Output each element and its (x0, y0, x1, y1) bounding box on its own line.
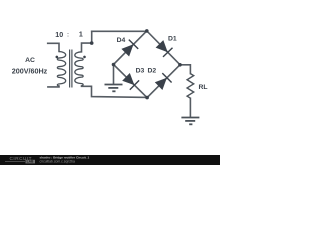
wire secondary-top to top node (92, 30, 147, 32)
wire primary bottom stub (48, 85, 59, 88)
diode D2 (bottom node to right node) (155, 78, 167, 90)
wire secondary bottom route (82, 86, 148, 97)
svg-text:RL: RL (198, 84, 207, 91)
resistor RL zigzag (187, 74, 194, 99)
wire diamond edge top-right (147, 31, 180, 65)
transformer T1 primary coil (57, 52, 65, 87)
node: right junction (178, 63, 182, 67)
node: top junction (145, 29, 149, 33)
svg-text:circuitlab.com.c.sqn2ba: circuitlab.com.c.sqn2ba (40, 159, 76, 163)
svg-text:LAB: LAB (27, 160, 34, 164)
wire left node to ground (113, 65, 115, 85)
wire diamond edge left-bottom (114, 65, 148, 98)
node: bottom junction (145, 96, 149, 100)
svg-text:1: 1 (79, 31, 83, 39)
svg-text:D4: D4 (117, 37, 126, 44)
svg-text::: : (67, 33, 69, 39)
svg-text:D1: D1 (168, 36, 177, 43)
phase dot primary (56, 56, 59, 59)
ground (right, below RL) (181, 118, 199, 125)
diode D4 (left node to top node) (121, 44, 133, 56)
diode D3 (left node to bottom node) (122, 73, 134, 85)
transformer T1 core (69, 50, 71, 88)
node: secondary top corner junction (90, 41, 94, 45)
wire corner to secondary stem (82, 43, 92, 52)
svg-text:D2: D2 (147, 67, 156, 74)
node: left junction (112, 63, 116, 67)
transformer T1 secondary coil (75, 52, 83, 86)
svg-text:10: 10 (55, 31, 63, 39)
ground (left, at node between D4/D3) (105, 85, 123, 92)
footer CircuitLab logo (5, 156, 35, 164)
wire right node to resistor (180, 65, 190, 74)
diode D1 (top node to right node) (156, 40, 168, 52)
svg-text:200V/60Hz: 200V/60Hz (12, 66, 48, 75)
svg-text:D3: D3 (136, 67, 145, 74)
wire diamond edge left-top (114, 31, 147, 65)
svg-text:AC: AC (25, 57, 35, 64)
wire primary top stub (48, 43, 59, 51)
wire resistor to ground (189, 98, 191, 117)
phase dot secondary (83, 56, 86, 59)
wire vertical at x=91.7 (91, 31, 93, 43)
wire diamond edge bottom-right (147, 65, 180, 98)
footer watermark bar (0, 155, 220, 165)
